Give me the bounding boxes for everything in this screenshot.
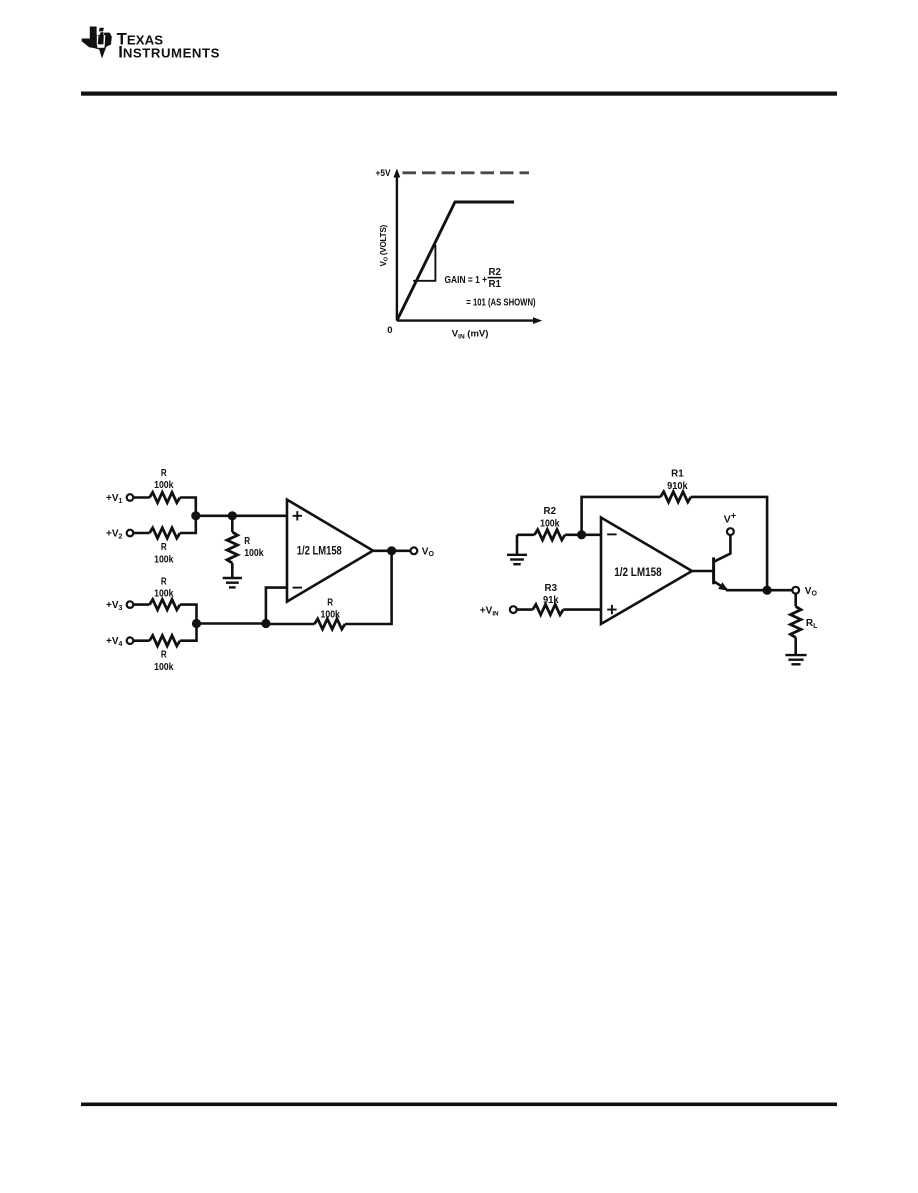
wire R2 to junction E	[565, 533, 582, 536]
svg-text:+V3: +V3	[106, 600, 123, 612]
svg-text:R1: R1	[488, 279, 501, 290]
svg-text:100k: 100k	[321, 609, 341, 621]
svg-text:R: R	[161, 541, 167, 553]
svg-text:R2: R2	[544, 505, 557, 517]
junction D dot	[192, 619, 201, 628]
resistor R 100k (V3 input)	[150, 599, 181, 609]
wire junction B to op-amp + input	[232, 514, 288, 517]
resistor R3 91k	[533, 604, 564, 614]
feedback resistor R 100k	[315, 619, 346, 629]
grounding resistor R 100k (vertical)	[227, 532, 238, 563]
Texas Instruments logo	[82, 27, 220, 62]
svg-text:100k: 100k	[154, 554, 174, 566]
header rule	[81, 92, 837, 96]
wire R3 to op-amp + input	[563, 608, 602, 611]
ground (RL)	[785, 654, 806, 656]
svg-text:VO: VO	[805, 586, 818, 598]
svg-text:GAIN = 1 +: GAIN = 1 +	[445, 275, 488, 286]
+V4 input terminal	[106, 636, 133, 648]
junction E dot	[577, 530, 586, 539]
V+ supply terminal	[727, 528, 734, 535]
wire junction C to op-amp - input	[266, 588, 288, 624]
wire junction to VO terminal (right)	[767, 589, 792, 592]
svg-text:100k: 100k	[540, 517, 560, 529]
wire op-amp output to transistor base	[692, 570, 713, 573]
wire R4in to junction D	[180, 624, 197, 641]
resistor R 100k (V4 input)	[150, 636, 181, 646]
wire resistor to ground	[231, 563, 234, 578]
transfer curve	[397, 202, 514, 321]
svg-text:0: 0	[387, 325, 392, 336]
+5V supply level dashed line	[403, 171, 530, 174]
svg-text:VO: VO	[422, 546, 435, 558]
resistor R 100k (V2 input)	[150, 528, 181, 538]
svg-text:R: R	[161, 467, 167, 479]
svg-text:+5V: +5V	[376, 168, 391, 178]
svg-text:R2: R2	[488, 267, 501, 278]
junction A dot	[191, 511, 200, 520]
svg-text:+V2: +V2	[106, 528, 123, 540]
svg-text:+VIN: +VIN	[480, 606, 499, 618]
svg-text:100k: 100k	[154, 661, 174, 673]
footer rule	[81, 1103, 837, 1107]
feedback wire up from junction E	[582, 497, 661, 535]
wire junction D to junction C	[197, 622, 266, 625]
svg-text:R: R	[327, 596, 333, 608]
svg-text:100k: 100k	[154, 588, 174, 600]
svg-text:R: R	[244, 535, 250, 547]
feedback wire R1 to output junction	[691, 497, 767, 590]
wire junction E to op-amp - input	[582, 533, 602, 536]
svg-text:RL: RL	[806, 618, 818, 630]
feedback wire down from output	[345, 551, 392, 624]
VO output terminal (right)	[792, 587, 799, 594]
svg-text:+V1: +V1	[106, 493, 123, 505]
svg-text:1/2 LM158: 1/2 LM158	[614, 565, 662, 579]
output junction dot (right)	[763, 586, 772, 595]
+V1 input terminal	[106, 493, 133, 505]
wire V2 to R	[133, 532, 149, 535]
svg-text:VIN (mV): VIN (mV)	[452, 329, 489, 341]
svg-text:910k: 910k	[667, 480, 688, 492]
svg-text:91k: 91k	[543, 594, 559, 606]
resistor R1 910k	[661, 492, 692, 502]
op-amp U2 1/2 LM158	[601, 518, 692, 625]
+V3 input terminal	[106, 600, 133, 612]
wire VIN to R3	[517, 608, 533, 611]
GAIN = 1 + R2/R1 formula	[445, 267, 502, 290]
output junction dot (left)	[387, 546, 396, 555]
+V2 input terminal	[106, 528, 133, 540]
wire V1 to R	[133, 496, 149, 499]
wire VO to load resistor	[794, 594, 797, 607]
wire feedback resistor to junction C	[266, 623, 315, 626]
resistor R 100k (V1 input)	[150, 492, 181, 502]
wire V4 to R	[133, 639, 149, 642]
svg-text:R3: R3	[545, 582, 558, 594]
wire V3 to R	[133, 603, 149, 606]
x-axis (VIN) with arrow	[397, 317, 542, 324]
ground (R2)	[516, 535, 519, 554]
svg-text:R1: R1	[671, 468, 684, 480]
svg-text:VO (VOLTS): VO (VOLTS)	[379, 225, 390, 267]
wire R1in to junction A	[180, 498, 196, 516]
svg-text:100k: 100k	[154, 479, 174, 491]
svg-text:1/2 LM158: 1/2 LM158	[297, 543, 342, 557]
svg-text:V+: V+	[724, 511, 736, 526]
gain slope triangle	[413, 245, 435, 281]
wire R2in to junction A	[180, 516, 196, 533]
wire junction B down to grounding resistor	[231, 516, 234, 532]
load resistor RL	[790, 607, 801, 638]
svg-text:+V4: +V4	[106, 636, 123, 648]
op-amp U1 1/2 LM158	[287, 500, 373, 602]
svg-text:= 101 (AS SHOWN): = 101 (AS SHOWN)	[466, 297, 535, 308]
wire emitter to output junction	[726, 589, 767, 592]
svg-text:100k: 100k	[244, 547, 264, 559]
resistor R2 100k	[535, 530, 566, 540]
junction B dot	[228, 511, 237, 520]
transistor Q1 (NPN boost)	[714, 535, 731, 591]
wire junction A to junction B	[196, 514, 233, 517]
svg-text:R: R	[161, 649, 167, 661]
wire ground to R2	[517, 533, 535, 536]
wire op-amp output to VO terminal	[373, 549, 410, 552]
ground (left circuit)	[223, 577, 242, 579]
svg-text:R: R	[161, 575, 167, 587]
wire R3in to junction D	[180, 605, 197, 624]
VO output terminal (left)	[411, 547, 418, 554]
y-axis (VO) with arrow	[394, 169, 401, 321]
wire RL to ground	[794, 638, 797, 656]
junction C dot	[261, 619, 270, 628]
svg-text:INSTRUMENTS: INSTRUMENTS	[118, 43, 220, 62]
